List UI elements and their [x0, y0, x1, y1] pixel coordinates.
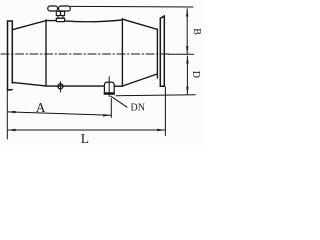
dim B arrow top — [186, 9, 188, 17]
extension line drain center — [110, 99, 112, 118]
svg-text:A: A — [36, 100, 46, 115]
extension line right — [164, 87, 166, 136]
dim L arrow right — [157, 129, 165, 131]
dim A arrow left — [7, 111, 15, 113]
right flange — [160, 16, 164, 86]
vent valve handle left — [48, 6, 58, 11]
body shell — [46, 20, 123, 86]
extension line left — [6, 90, 8, 139]
right hub — [156, 29, 158, 78]
extension line top (valve height) — [71, 5, 194, 8]
svg-text:L: L — [81, 131, 89, 146]
vent valve stem — [58, 16, 63, 19]
dim A arrow right — [103, 114, 111, 116]
centerline — [1, 53, 170, 55]
drain boss circle — [58, 84, 63, 89]
drain connection band — [104, 92, 115, 95]
dim A line — [8, 112, 111, 115]
vent valve nut split — [60, 11, 62, 15]
dim B arrow bottom — [186, 46, 188, 54]
extension line bottom (drain depth) — [116, 94, 195, 97]
weld seam right — [121, 19, 123, 87]
dim L arrow left — [7, 129, 15, 131]
leader DN — [111, 96, 127, 107]
vent valve packing nut — [56, 11, 64, 15]
drain connection dome — [104, 82, 114, 92]
svg-text:D: D — [190, 71, 201, 78]
left flange — [8, 21, 13, 90]
svg-text:DN: DN — [131, 103, 145, 114]
centerline extension datum — [168, 53, 194, 55]
dim D arrow top — [186, 56, 188, 64]
left reducer cone — [12, 21, 46, 86]
dim L line — [8, 129, 165, 131]
vent valve handle right — [59, 6, 71, 11]
dim B line — [186, 9, 188, 54]
svg-text:B: B — [191, 28, 202, 35]
weld seam left — [45, 20, 47, 86]
dim D arrow bottom — [186, 87, 188, 95]
drain boss centerline — [59, 82, 61, 92]
vent valve bonnet — [56, 18, 64, 21]
dim D line — [186, 56, 188, 94]
drain centerline — [108, 77, 110, 97]
right reducer cone — [122, 19, 157, 86]
